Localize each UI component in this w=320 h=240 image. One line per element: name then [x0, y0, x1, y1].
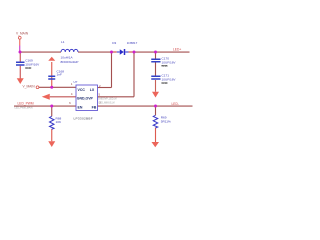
svg-text:VCC: VCC [78, 88, 86, 92]
svg-text:8FD0XH4HP: 8FD0XH4HP [61, 60, 79, 64]
svg-text:GNDOVP_LED_M: GNDOVP_LED_M [98, 98, 117, 100]
svg-text:LED_MINUS_M: LED_MINUS_M [99, 103, 115, 105]
svg-text:U?: U? [74, 80, 78, 84]
svg-text:D3: D3 [112, 41, 116, 45]
svg-text:GND,OVP: GND,OVP [77, 96, 94, 100]
svg-text:C169: C169 [25, 58, 33, 62]
svg-text:10UF/16V: 10UF/16V [25, 62, 40, 66]
svg-text:LP3302BBF: LP3302BBF [74, 117, 93, 121]
svg-text:EN: EN [78, 106, 83, 110]
svg-text:10uH/1A: 10uH/1A [61, 55, 74, 59]
svg-text:C170: C170 [162, 57, 170, 61]
svg-text:1nF: 1nF [57, 73, 62, 77]
svg-text:V_MAIN: V_MAIN [16, 31, 29, 35]
svg-text:LED+: LED+ [173, 47, 181, 51]
svg-text:L1: L1 [61, 40, 65, 44]
svg-text:1N5817: 1N5817 [127, 41, 138, 45]
svg-text:10K: 10K [56, 120, 62, 124]
svg-text:V_MAIN: V_MAIN [23, 84, 36, 88]
svg-text:5R11%: 5R11% [161, 120, 171, 124]
svg-text:FB: FB [92, 106, 97, 110]
svg-text:10UF/16V: 10UF/16V [162, 78, 177, 82]
svg-text:LED_PWM: LED_PWM [18, 102, 34, 106]
svg-text:LED-: LED- [172, 102, 179, 106]
svg-text:10UF/16V: 10UF/16V [162, 60, 177, 64]
svg-text:C171: C171 [162, 74, 170, 78]
svg-text:LX: LX [90, 88, 95, 92]
svg-text:R69: R69 [161, 115, 167, 119]
